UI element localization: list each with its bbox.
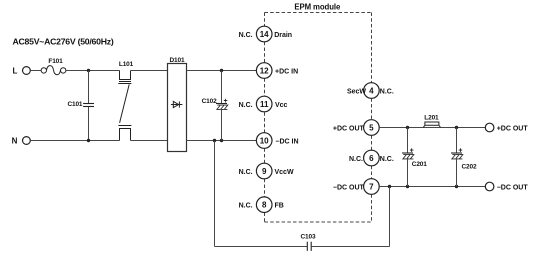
wire (bottom rail left) bbox=[215, 246, 308, 248]
svg-text:N.C.: N.C. bbox=[239, 169, 253, 176]
junction bbox=[220, 139, 223, 142]
svg-text:D101: D101 bbox=[170, 57, 185, 64]
common-mode choke L101 bbox=[118, 61, 133, 141]
svg-text:+: + bbox=[458, 147, 462, 154]
wire bbox=[187, 70, 257, 72]
wire bbox=[30, 140, 119, 142]
wire bbox=[30, 70, 41, 72]
EPM module outline (dashed box) bbox=[265, 13, 372, 223]
svg-text:−DC OUT: −DC OUT bbox=[333, 184, 365, 191]
terminal -DC OUT bbox=[485, 182, 528, 191]
svg-text:7: 7 bbox=[369, 182, 374, 191]
junction bbox=[388, 185, 391, 188]
svg-text:N.C.: N.C. bbox=[380, 156, 394, 163]
junction bbox=[87, 139, 90, 142]
svg-text:L201: L201 bbox=[424, 114, 439, 121]
wire bbox=[131, 140, 168, 142]
svg-text:+DC OUT: +DC OUT bbox=[333, 125, 365, 132]
svg-text:FB: FB bbox=[275, 203, 284, 210]
svg-text:9: 9 bbox=[262, 167, 267, 176]
junction bbox=[213, 139, 216, 142]
svg-text:+DC IN: +DC IN bbox=[275, 68, 298, 75]
svg-text:L101: L101 bbox=[119, 61, 134, 68]
pin 6 (N.C.) bbox=[349, 150, 394, 166]
fuse F101 bbox=[41, 58, 66, 75]
svg-text:10: 10 bbox=[260, 136, 269, 145]
junction bbox=[87, 69, 90, 72]
svg-text:+: + bbox=[410, 147, 414, 154]
svg-text:N.C.: N.C. bbox=[239, 203, 253, 210]
svg-text:4: 4 bbox=[369, 86, 374, 95]
svg-text:C101: C101 bbox=[67, 101, 82, 108]
terminal N bbox=[12, 136, 31, 145]
pin 5 (+DC OUT) bbox=[333, 120, 379, 136]
pin 10 (-DC IN) bbox=[256, 133, 298, 149]
pin 8 (FB) bbox=[239, 197, 284, 213]
svg-text:N.C.: N.C. bbox=[239, 32, 253, 39]
wire (bottom rail right) bbox=[311, 246, 389, 248]
wire bbox=[131, 70, 168, 72]
svg-text:N.C.: N.C. bbox=[380, 88, 394, 95]
junction bbox=[406, 126, 409, 129]
wire -DC rail bbox=[379, 186, 485, 188]
capacitor C103 bbox=[301, 234, 316, 251]
svg-text:6: 6 bbox=[369, 154, 374, 163]
svg-text:5: 5 bbox=[369, 123, 374, 132]
wire (left drop to bottom rail) bbox=[214, 141, 216, 247]
svg-text:SecW: SecW bbox=[347, 88, 366, 95]
capacitor C101 bbox=[67, 71, 94, 141]
capacitor C202 bbox=[451, 128, 477, 187]
svg-text:11: 11 bbox=[260, 100, 269, 109]
svg-text:C103: C103 bbox=[301, 234, 316, 241]
svg-text:C102: C102 bbox=[202, 98, 217, 105]
svg-text:+DC OUT: +DC OUT bbox=[497, 126, 529, 133]
svg-text:VccW: VccW bbox=[275, 169, 294, 176]
svg-text:C201: C201 bbox=[412, 161, 427, 168]
pin 11 (Vcc) bbox=[239, 96, 288, 112]
terminal L bbox=[13, 66, 31, 75]
svg-text:Vcc: Vcc bbox=[275, 102, 288, 109]
wire bbox=[66, 70, 120, 72]
svg-text:N.C.: N.C. bbox=[349, 156, 363, 163]
svg-text:AC85V~AC276V (50/60Hz): AC85V~AC276V (50/60Hz) bbox=[13, 36, 114, 46]
pin 4 (SecW) bbox=[347, 83, 394, 99]
bridge rectifier D101 bbox=[168, 57, 187, 152]
junction bbox=[220, 69, 223, 72]
svg-text:N.C.: N.C. bbox=[239, 102, 253, 109]
svg-text:−DC IN: −DC IN bbox=[275, 138, 298, 145]
pin 14 (Drain) bbox=[239, 26, 293, 42]
svg-text:+: + bbox=[223, 98, 227, 105]
svg-text:F101: F101 bbox=[48, 58, 63, 65]
pin 9 (VccW) bbox=[239, 163, 294, 179]
svg-text:N: N bbox=[12, 136, 18, 145]
junction bbox=[406, 185, 409, 188]
wire (right rise to -DC rail) bbox=[389, 187, 391, 247]
wire bbox=[187, 140, 257, 142]
inductor L201 bbox=[423, 114, 440, 127]
svg-text:8: 8 bbox=[262, 201, 267, 210]
svg-text:EPM module: EPM module bbox=[294, 3, 341, 12]
capacitor C102 bbox=[202, 71, 228, 141]
terminal +DC OUT bbox=[485, 123, 528, 132]
pin 12 (+DC IN) bbox=[256, 63, 298, 79]
pin 7 (-DC OUT) bbox=[333, 179, 379, 195]
svg-text:12: 12 bbox=[260, 66, 269, 75]
svg-text:L: L bbox=[13, 66, 18, 75]
svg-text:14: 14 bbox=[260, 30, 269, 39]
junction bbox=[455, 126, 458, 129]
svg-text:C202: C202 bbox=[462, 163, 477, 170]
junction bbox=[455, 185, 458, 188]
svg-text:−DC OUT: −DC OUT bbox=[497, 185, 529, 192]
wire +DC rail bbox=[379, 127, 485, 129]
svg-text:Drain: Drain bbox=[274, 32, 292, 39]
capacitor C201 bbox=[402, 128, 427, 187]
